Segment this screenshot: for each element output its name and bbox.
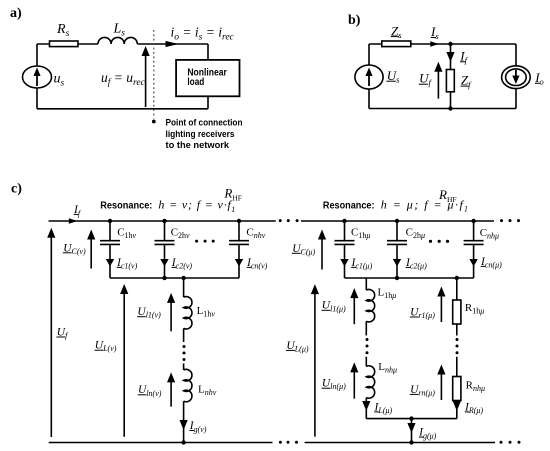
svg-text:Resonance:: Resonance:	[100, 200, 152, 212]
svg-text:to the network: to the network	[166, 140, 230, 151]
svg-text:c): c)	[11, 181, 22, 196]
svg-text:Resonance:: Resonance:	[323, 199, 375, 211]
svg-text:b): b)	[348, 13, 361, 28]
svg-text:h = ν; f = ν·f: h = ν; f = ν·f	[158, 198, 232, 212]
svg-text:lighting receivers: lighting receivers	[166, 129, 235, 140]
svg-text:a): a)	[10, 6, 22, 21]
svg-text:1: 1	[231, 205, 235, 214]
svg-text:Point of connection: Point of connection	[166, 117, 243, 128]
svg-text:1: 1	[464, 205, 468, 214]
svg-text:load: load	[187, 77, 204, 88]
